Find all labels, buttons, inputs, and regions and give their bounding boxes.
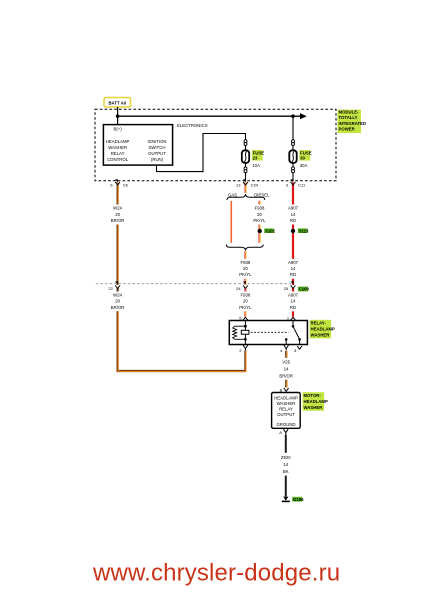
wire from BATT A0 to TIPM B(+) xyxy=(117,107,119,125)
splice S102 xyxy=(258,228,276,233)
svg-text:SWITCH: SWITCH xyxy=(149,145,166,150)
svg-text:GROUND: GROUND xyxy=(276,422,295,427)
connector C100 pin 25 xyxy=(284,281,296,290)
wire GAS branch xyxy=(230,201,232,243)
svg-text:WASHER: WASHER xyxy=(304,405,324,410)
svg-text:14: 14 xyxy=(291,266,296,271)
svg-text:BATT A0: BATT A0 xyxy=(108,101,126,106)
svg-text:WASHER: WASHER xyxy=(277,401,296,406)
svg-text:WASHER: WASHER xyxy=(108,145,127,150)
svg-text:GAS: GAS xyxy=(228,192,237,197)
battery feed label BATT A0 xyxy=(104,98,131,108)
svg-text:DIESEL: DIESEL xyxy=(254,192,270,197)
wire W24 20 BR/OR upper segment xyxy=(111,183,125,286)
svg-text:14: 14 xyxy=(284,366,289,371)
TIPM internal block xyxy=(103,125,172,166)
relay actuator dashed link xyxy=(251,331,289,333)
svg-text:PK/YL: PK/YL xyxy=(253,218,266,223)
label MODULE-TOTALLY INTEGRATED POWER xyxy=(338,110,367,134)
svg-text:4: 4 xyxy=(280,348,283,353)
svg-text:RD: RD xyxy=(290,218,296,223)
svg-text:14: 14 xyxy=(291,299,296,304)
connector pin 13 C24 at TIPM xyxy=(236,179,259,187)
svg-text:25: 25 xyxy=(284,286,289,291)
node B+ junction dot xyxy=(116,114,120,118)
motor pin A terminal xyxy=(279,429,288,435)
svg-text:14: 14 xyxy=(291,212,296,217)
relay pin 2 terminal xyxy=(239,345,248,353)
svg-text:MODULE-: MODULE- xyxy=(339,110,360,115)
svg-text:6: 6 xyxy=(110,183,113,188)
wire F938 20 PK/YL to relay pin 5 xyxy=(239,288,252,317)
wire DIESEL branch F938 20 PK/YL xyxy=(253,201,266,243)
svg-text:S102: S102 xyxy=(265,228,276,233)
svg-text:C24: C24 xyxy=(251,183,259,188)
wire W24 20 BR/OR to relay pin 2 xyxy=(111,288,246,372)
svg-text:F938: F938 xyxy=(241,292,251,297)
wire stub PK/YL below connector 13 xyxy=(244,183,247,194)
svg-text:20: 20 xyxy=(115,299,120,304)
svg-text:Z920: Z920 xyxy=(281,455,291,460)
wire A907 14 RD to relay pin 1 xyxy=(288,288,299,317)
wire tap down to fuse 30 xyxy=(292,116,294,140)
wire V25 14 BR/OR relay to motor xyxy=(279,351,293,387)
brace split GAS/DIESEL xyxy=(227,194,265,200)
svg-text:HEADLAMP: HEADLAMP xyxy=(106,139,130,144)
svg-text:F938: F938 xyxy=(255,206,265,211)
svg-text:INTEGRATED: INTEGRATED xyxy=(339,121,367,126)
svg-text:A907: A907 xyxy=(288,260,299,265)
svg-text:HEADLAMP: HEADLAMP xyxy=(311,327,335,332)
relay switch xyxy=(285,321,301,345)
relay pin 1 terminal xyxy=(287,315,296,320)
brace merge below GAS/DIESEL xyxy=(226,245,263,251)
label MOTOR-HEADLAMP WASHER xyxy=(303,392,328,411)
svg-text:HEADLAMP: HEADLAMP xyxy=(304,399,328,404)
svg-text:30: 30 xyxy=(300,156,305,161)
ground G106 xyxy=(282,497,304,502)
relay coil xyxy=(233,321,249,345)
svg-text:RELAY: RELAY xyxy=(279,406,293,411)
svg-text:RELAY-: RELAY- xyxy=(311,321,327,326)
svg-text:30A: 30A xyxy=(300,163,308,168)
svg-text:BR/OR: BR/OR xyxy=(111,218,125,223)
fuse F30 xyxy=(289,146,296,168)
svg-text:C6: C6 xyxy=(123,183,129,188)
connector C100 pin 24 xyxy=(236,281,248,290)
svg-text:2: 2 xyxy=(239,348,242,353)
svg-text:G106: G106 xyxy=(293,497,304,502)
label FUSE 23 10A xyxy=(252,150,264,168)
in-line connector C100 dashed line xyxy=(96,284,310,292)
relay pin 3 terminal unused xyxy=(294,346,302,353)
connector pin 6 C6 at TIPM xyxy=(110,179,128,187)
connector pin 3 C11 at TIPM xyxy=(286,179,306,187)
wire F938 20 PK/YL middle segment xyxy=(239,251,252,285)
terminal above fuse 23 xyxy=(244,140,247,146)
svg-text:20: 20 xyxy=(115,212,120,217)
relay K1 headlamp washer outline xyxy=(229,321,307,345)
svg-text:PK/YL: PK/YL xyxy=(239,272,252,277)
svg-text:RD: RD xyxy=(290,272,296,277)
svg-text:BR/OR: BR/OR xyxy=(279,373,293,378)
svg-text:B: B xyxy=(280,387,283,392)
svg-text:A907: A907 xyxy=(288,292,299,297)
svg-text:24: 24 xyxy=(236,286,241,291)
wire IGNITION SWITCH OUTPUT (RUN) to fuse 23 xyxy=(157,134,246,172)
svg-text:(RUN): (RUN) xyxy=(151,157,164,162)
svg-text:W24: W24 xyxy=(113,206,122,211)
svg-text:5: 5 xyxy=(239,315,242,320)
svg-text:3: 3 xyxy=(286,183,289,188)
relay pin 5 terminal xyxy=(239,315,248,320)
svg-text:1: 1 xyxy=(287,315,290,320)
svg-text:POWER: POWER xyxy=(339,126,356,131)
svg-text:C100: C100 xyxy=(299,287,310,292)
svg-text:20: 20 xyxy=(243,299,248,304)
svg-text:W24: W24 xyxy=(113,292,122,297)
svg-text:TOTALLY: TOTALLY xyxy=(339,115,358,120)
terminal below fuse 23 xyxy=(244,167,247,181)
svg-text:BK: BK xyxy=(283,469,289,474)
fuse F23 xyxy=(242,146,249,168)
wire Z920 14 BK ground wire xyxy=(281,435,291,497)
svg-text:BR/OR: BR/OR xyxy=(111,305,125,310)
svg-text:PK/YL: PK/YL xyxy=(239,305,252,310)
svg-text:OUTPUT: OUTPUT xyxy=(148,151,166,156)
svg-text:V25: V25 xyxy=(282,359,290,364)
svg-text:www.chrysler-dodge.ru: www.chrysler-dodge.ru xyxy=(92,560,340,587)
node fuse30 tap junction dot xyxy=(291,114,295,118)
footer website text xyxy=(92,560,340,587)
label RELAY-HEADLAMP WASHER xyxy=(310,320,335,339)
svg-text:IGNITION: IGNITION xyxy=(147,139,166,144)
motor M1 headlamp washer box xyxy=(272,393,301,429)
svg-text:CONTROL: CONTROL xyxy=(107,157,129,162)
wire A907 14 RD upper segment xyxy=(288,183,299,259)
wire A907 14 RD lower segment xyxy=(288,260,299,285)
svg-text:S113: S113 xyxy=(299,228,309,233)
svg-text:13: 13 xyxy=(236,183,241,188)
svg-text:3: 3 xyxy=(294,348,297,353)
terminal above fuse 30 xyxy=(292,140,295,146)
svg-text:WASHER: WASHER xyxy=(311,333,331,338)
svg-text:B(+): B(+) xyxy=(113,127,122,132)
svg-text:RD: RD xyxy=(290,305,296,310)
svg-text:23: 23 xyxy=(253,156,258,161)
label DIESEL xyxy=(254,192,270,197)
svg-text:F938: F938 xyxy=(241,260,251,265)
svg-text:C11: C11 xyxy=(298,183,306,188)
svg-text:ELECTRONICS: ELECTRONICS xyxy=(177,123,208,128)
svg-text:A: A xyxy=(279,430,282,435)
label ELECTRONICS xyxy=(177,123,208,128)
splice S113 xyxy=(291,228,309,233)
svg-text:22: 22 xyxy=(108,286,113,291)
svg-text:RELAY: RELAY xyxy=(111,151,125,156)
module dashed outline TIPM xyxy=(95,109,336,180)
terminal below fuse 30 xyxy=(292,167,295,181)
svg-text:20: 20 xyxy=(257,212,262,217)
label FUSE 30 30A xyxy=(299,150,311,168)
svg-text:20: 20 xyxy=(243,266,248,271)
svg-text:A907: A907 xyxy=(288,206,299,211)
svg-text:MOTOR-: MOTOR- xyxy=(304,393,322,398)
label GAS xyxy=(228,192,237,197)
svg-text:OUTPUT: OUTPUT xyxy=(277,412,295,417)
svg-text:14: 14 xyxy=(283,462,288,467)
wire B+ bus with arrow xyxy=(118,113,307,119)
svg-text:HEADLAMP: HEADLAMP xyxy=(274,395,298,400)
motor pin B terminal xyxy=(280,387,289,392)
relay pin 4 terminal xyxy=(280,345,289,353)
svg-text:10A: 10A xyxy=(252,163,260,168)
connector C100 pin 22 xyxy=(108,281,120,290)
